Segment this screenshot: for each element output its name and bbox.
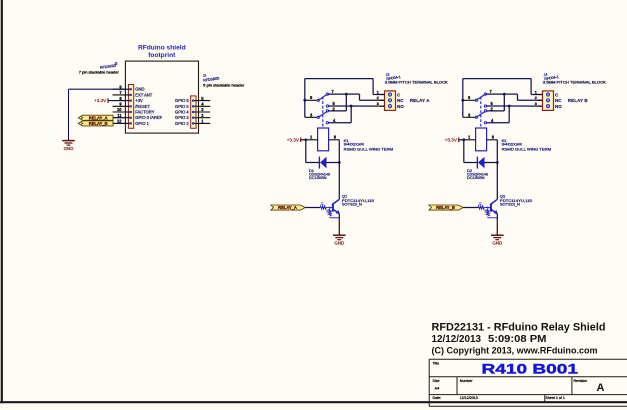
wire emitter to ground (RELAY A) (338, 214, 340, 220)
svg-text:12: 12 (117, 119, 122, 124)
relay K2 contact pin 7 (485, 93, 504, 95)
ground symbol (RELAY A emitter) (333, 234, 346, 236)
svg-text:GPIO 4: GPIO 4 (175, 110, 189, 115)
svg-text:RELAY_A: RELAY_A (89, 115, 108, 120)
svg-text:+3V: +3V (135, 98, 143, 103)
svg-text:Number: Number (460, 379, 474, 383)
node RELAY_A flag (transistor input) (271, 205, 305, 210)
relay K2 contact arm 2 (476, 111, 485, 117)
relay K1 contact pole pin 3 (305, 116, 319, 118)
ground symbol (RELAY B emitter) (491, 234, 504, 236)
svg-text:GPIO 6: GPIO 6 (175, 98, 189, 103)
wire NC net (RELAY A) (346, 93, 359, 95)
relay coil pin 1 (RELAY B) (464, 139, 476, 141)
relay K2 mechanical link (dashed) (480, 97, 482, 128)
shield pin 3 (GPIO 4) stub (194, 111, 210, 113)
wire NC net (RELAY B) (504, 93, 517, 95)
svg-text:GPIO 3: GPIO 3 (175, 115, 189, 120)
svg-text:(C) Copyright 2013, www.RFduin: (C) Copyright 2013, www.RFduino.com (432, 345, 598, 355)
svg-text:GND: GND (492, 241, 502, 246)
transistor Q1 internal base resistor (320, 206, 326, 209)
relay K2 contact pin 5 (484, 105, 486, 107)
svg-text:Title: Title (433, 361, 440, 365)
relay K1 contact pin 5 (326, 105, 328, 107)
svg-text:Sheet 1 of 1: Sheet 1 of 1 (546, 396, 565, 400)
relay K2 contact pin 4 (484, 122, 486, 124)
svg-text:DC1005N: DC1005N (309, 175, 327, 180)
svg-text:12/12/2013: 12/12/2013 (432, 334, 482, 345)
wire diode cathode to collector net (RELAY B) (485, 162, 498, 164)
connector J1 5 pin stackable header symbol (191, 96, 196, 128)
transistor Q2 internal base-emitter resistor (487, 208, 489, 210)
junction diode / collector (RELAY B) (496, 161, 499, 164)
shield pin 1 (GPIO 2) stub (194, 122, 210, 124)
wire RELAY_A to pin 11 (113, 117, 125, 119)
svg-text:footprint: footprint (148, 52, 176, 59)
svg-text:RELAY B: RELAY B (568, 98, 589, 103)
svg-text:GND: GND (135, 87, 144, 92)
wire common poles vertical (RELAY A) (304, 79, 306, 118)
junction pin 7 tie (RELAY B) (503, 93, 506, 96)
wire coil pin 8 to collector (RELAY B) (496, 140, 498, 200)
svg-text:GND: GND (334, 241, 344, 246)
wire RELAY_B to base resistor (463, 207, 478, 209)
terminal J4 screw pin 2 (546, 98, 550, 102)
wire +3.3V to pin 8 (108, 100, 125, 102)
relay coil pin 8 (RELAY A) (329, 139, 340, 141)
junction coil pin 1 / diode (RELAY B) (462, 138, 465, 141)
svg-text:Revision: Revision (574, 379, 588, 383)
transistor Q1 internal base-emitter resistor (329, 208, 331, 210)
svg-text:5:09:08 PM: 5:09:08 PM (488, 334, 547, 345)
svg-text:NO: NO (555, 104, 562, 109)
terminal J4 screw pin 3 (546, 104, 550, 108)
svg-text:3.5MM PITCH TERMINAL BLOCK: 3.5MM PITCH TERMINAL BLOCK (543, 80, 607, 84)
wire emitter to ground (RELAY B) (496, 214, 498, 220)
relay K1 coil (318, 128, 329, 151)
terminal block J3 (RELAY A) (385, 91, 396, 111)
shield pin 10 (FACTORY) stub (113, 111, 130, 113)
relay K1 contact pole pin 6 (305, 99, 319, 101)
wire coil pin1 to diode anode (RELAY B) (463, 140, 465, 163)
ground symbol (shield) (62, 140, 75, 142)
relay K1 contact arm 2 (318, 111, 327, 117)
svg-text:RELAY A: RELAY A (410, 98, 430, 103)
svg-text:NO: NO (397, 104, 404, 109)
svg-text:GPIO 1: GPIO 1 (135, 121, 149, 126)
RFduino shield body outline (125, 61, 198, 133)
relay coil pin 1 (RELAY A) (306, 139, 318, 141)
power +3.3V (shield pin 8) (107, 98, 109, 103)
wire C net top (RELAY A) (305, 78, 373, 80)
junction emitter resistor (RELAY B) (496, 217, 498, 219)
wire pins 5-4 tie (RELAY A) (350, 106, 352, 123)
svg-text:RELAY_B: RELAY_B (436, 205, 455, 210)
wire GND net from pin 6 (69, 88, 126, 90)
svg-text:RFduino shield: RFduino shield (138, 45, 186, 52)
sheet frame left border (1, 0, 3, 403)
svg-text:/RESET: /RESET (135, 104, 150, 109)
wire coil pin1 to diode anode (RELAY A) (305, 140, 307, 163)
svg-text:5 pin stackable header: 5 pin stackable header (203, 83, 245, 87)
shield pin 9 (/RESET) stub (113, 105, 130, 107)
svg-text:GPIO 0 /AREF: GPIO 0 /AREF (135, 115, 162, 120)
junction emitter resistor (RELAY A) (338, 217, 340, 219)
wire pins 5-4 tie (RELAY B) (508, 106, 510, 123)
shield pin 5 (GPIO 6) stub (194, 100, 210, 102)
svg-text:R410 B001: R410 B001 (482, 361, 579, 377)
wire RELAY_A to base resistor (305, 207, 320, 209)
svg-text:Size: Size (433, 379, 440, 383)
shield pin 11 (GPIO 0 /AREF) stub (113, 117, 130, 119)
junction common pole pin 6 (RELAY B) (461, 99, 464, 102)
shield pin 8 (+3V) stub (113, 100, 130, 102)
relay coil pin 8 (RELAY B) (487, 139, 498, 141)
wire common poles vertical (RELAY B) (462, 79, 464, 118)
svg-text:RFD22131 - RFduino Relay Shiel: RFD22131 - RFduino Relay Shield (432, 321, 606, 333)
wire RELAY_B to pin 12 (113, 122, 125, 124)
wire coil pin 8 to collector (RELAY A) (338, 140, 340, 200)
relay K1 contact arm 1 (318, 94, 327, 100)
power +3.3V (RELAY B coil) (458, 137, 460, 142)
transistor Q1 (333, 199, 339, 204)
svg-text:A4: A4 (435, 386, 441, 391)
junction common pole pin 6 (RELAY A) (303, 99, 306, 102)
svg-text:+3.3V: +3.3V (94, 98, 107, 103)
shield pin 12 (GPIO 1) stub (113, 122, 130, 124)
relay K2 contact arm 1 (476, 94, 485, 100)
title block table borders (429, 358, 627, 360)
diode D1 (flyback) (318, 157, 320, 169)
svg-text:SOT323_N: SOT323_N (342, 202, 362, 207)
shield pin 6 (GND) stub (113, 88, 130, 90)
svg-text:NC: NC (397, 98, 404, 103)
svg-text:GND: GND (64, 146, 74, 151)
node RELAY_A flag (shield pin 11) (78, 115, 113, 120)
connector J2 7 pin stackable header symbol (128, 85, 133, 129)
svg-text:GPIO 2: GPIO 2 (175, 121, 189, 126)
sheet frame bottom border (0, 401, 627, 403)
terminal J3 screw pin 2 (388, 98, 392, 102)
svg-text:10: 10 (117, 107, 122, 112)
terminal J4 screw pin 1 (546, 92, 550, 96)
wire diode cathode to collector net (RELAY A) (327, 162, 340, 164)
svg-text:A: A (597, 382, 605, 394)
svg-text:RELAY_B: RELAY_B (89, 121, 108, 126)
svg-text:DC1005N: DC1005N (467, 175, 485, 180)
svg-text:FACTORY: FACTORY (135, 110, 154, 115)
relay K2 coil (476, 128, 487, 151)
svg-text:+3.3V: +3.3V (445, 137, 458, 142)
svg-text:SOT323_N: SOT323_N (500, 202, 520, 207)
wire pins 7-2 tie (RELAY B) (503, 94, 505, 111)
terminal J3 screw pin 3 (388, 104, 392, 108)
svg-text:11: 11 (117, 113, 122, 118)
svg-text:7 pin stackable header: 7 pin stackable header (79, 70, 120, 74)
svg-text:12/12/2013: 12/12/2013 (460, 396, 478, 400)
wire C net top (RELAY B) (463, 78, 531, 80)
power +3.3V (RELAY A coil) (300, 137, 302, 142)
shield pin 2 (GPIO 3) stub (194, 117, 210, 119)
transistor Q2 (491, 199, 497, 204)
relay K2 contact pole pin 6 (463, 99, 477, 101)
svg-text:GPIO 5: GPIO 5 (175, 104, 189, 109)
node RELAY_B flag (transistor input) (429, 205, 463, 210)
svg-text:NC: NC (555, 98, 562, 103)
relay K2 contact pole pin 3 (463, 116, 477, 118)
junction diode / collector (RELAY A) (338, 161, 341, 164)
relay K1 contact pin 4 (326, 122, 328, 124)
junction pin 5 / NO (RELAY A) (350, 105, 353, 108)
svg-text:RELAY_A: RELAY_A (278, 205, 297, 210)
svg-text:3.5MM PITCH TERMINAL BLOCK: 3.5MM PITCH TERMINAL BLOCK (385, 80, 449, 84)
terminal J3 screw pin 1 (388, 92, 392, 96)
svg-text:+3.3V: +3.3V (287, 137, 300, 142)
relay K2 contact pin 2 (484, 110, 486, 112)
junction pin 7 tie (RELAY A) (345, 93, 348, 96)
junction base resistors (RELAY A) (329, 207, 331, 209)
junction pin 5 / NO (RELAY B) (508, 105, 511, 108)
svg-text:RSMD GULL WING TERM: RSMD GULL WING TERM (344, 147, 394, 152)
terminal block J4 (RELAY B) (543, 91, 554, 111)
junction coil pin 1 / diode (RELAY A) (304, 138, 307, 141)
svg-text:EXT ANT: EXT ANT (135, 92, 152, 97)
diode D2 (flyback) (476, 157, 478, 169)
shield pin 4 (GPIO 5) stub (194, 105, 210, 107)
relay K1 contact pin 2 (326, 110, 328, 112)
wire pins 7-2 tie (RELAY A) (345, 94, 347, 111)
svg-text:RSMD GULL WING TERM: RSMD GULL WING TERM (502, 147, 551, 152)
transistor Q2 internal base resistor (478, 206, 484, 209)
node RELAY_B flag (shield pin 12) (78, 121, 113, 126)
junction base resistors (RELAY B) (487, 207, 489, 209)
relay K1 mechanical link (dashed) (322, 97, 324, 128)
shield pin 7 (EXT ANT) stub (113, 94, 130, 96)
relay K1 contact pin 7 (327, 93, 346, 95)
svg-text:Date:: Date: (433, 396, 442, 400)
